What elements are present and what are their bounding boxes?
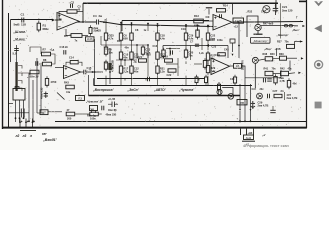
wire drop bottom [244, 78, 246, 121]
wire drop bottom [239, 84, 241, 121]
main signal wire [100, 22, 214, 27]
wire [185, 61, 187, 64]
capacitor C15 [83, 70, 85, 75]
svg-text:„Лин’: „Лин’ [263, 47, 272, 51]
top supply bus [83, 2, 278, 4]
wire fb U2 [66, 62, 70, 65]
svg-text:„г’: „г’ [261, 133, 266, 137]
wire drop [207, 26, 209, 31]
resistor C25 [287, 44, 295, 48]
resistor R43 [66, 85, 75, 89]
resistor R13a [130, 33, 133, 40]
switch S1 tap 4 [18, 88, 22, 91]
junction [250, 120, 252, 122]
junction [32, 120, 34, 122]
capacitor C1 [21, 18, 23, 23]
output arrow 2 [300, 40, 303, 42]
wire grid h3 [166, 48, 180, 50]
svg-text:200: 200 [67, 117, 72, 121]
svg-text:2м: 2м [99, 14, 103, 18]
wire input down to switch [10, 20, 12, 63]
svg-text:R30: R30 [210, 38, 215, 42]
band stub [124, 78, 126, 80]
svg-text:АН2: АН2 [246, 136, 252, 140]
svg-text:„Монитор’: „Монитор’ [252, 39, 268, 43]
resistor R20 [156, 66, 159, 73]
ground stem U3 [208, 8, 210, 15]
svg-text:„Ш.мог.’: „Ш.мог.’ [13, 30, 27, 34]
wire U1 output [77, 21, 96, 23]
capacitor C23b [147, 77, 149, 81]
junction [244, 120, 246, 122]
svg-text:С43: С43 [224, 49, 229, 52]
capacitor C19 [14, 48, 19, 50]
capacitor C28b [267, 78, 272, 80]
svg-text:+НЗ: +НЗ [248, 132, 253, 135]
svg-text:R8: R8 [43, 58, 47, 62]
wire band corner2 [88, 75, 90, 96]
wire grid v2 [147, 45, 149, 58]
resistor R14 feedback [70, 61, 78, 64]
resistor R22 [184, 33, 187, 40]
feedback arrow left [206, 44, 209, 47]
svg-text:С8: С8 [135, 28, 139, 32]
wire [120, 76, 122, 85]
capacitor C35 [101, 106, 103, 111]
resistor R28 [206, 66, 209, 73]
wire [75, 113, 90, 115]
resistor R19b [165, 59, 173, 62]
svg-text:л3: л3 [22, 134, 27, 138]
wire lamp to band [222, 88, 233, 96]
output arrow right [302, 25, 305, 27]
svg-text:2мк×476: 2мк×476 [242, 60, 245, 70]
svg-text:С19: С19 [181, 28, 186, 31]
resistor R11 [119, 52, 122, 59]
wire gnd bus left [8, 112, 29, 114]
selector switch S1 bar [15, 62, 17, 91]
op-amp U4 [211, 58, 230, 75]
wire drop [185, 25, 187, 31]
wire U3 out [233, 21, 253, 23]
wire grid h1 [101, 44, 148, 46]
pin mark 3 [33, 120, 35, 122]
ground bar U3 [206, 7, 212, 9]
wire [162, 46, 164, 51]
wire [131, 61, 133, 64]
junction pin 3 [32, 121, 34, 123]
junction pin [23, 117, 25, 119]
motor M1 circle [252, 57, 258, 63]
connector bracket line [20, 130, 36, 132]
resistor R6 [104, 33, 107, 40]
svg-text:АЧХ: АЧХ [87, 37, 93, 41]
wire [105, 61, 107, 64]
page left edge line [2, 0, 4, 129]
wire R3 to fb [77, 11, 83, 13]
capacitor C16 [63, 50, 65, 54]
capacitor C13b [170, 50, 172, 54]
wire long vertical d [40, 65, 42, 113]
svg-text:70к: 70к [188, 53, 193, 57]
svg-text:4,7Б: 4,7Б [280, 80, 285, 83]
junction bus C21 [275, 2, 277, 4]
junction [124, 59, 126, 61]
wire [296, 41, 303, 43]
junction main 1 [103, 21, 105, 23]
junction [92, 71, 94, 73]
wire [284, 92, 286, 100]
wire U1 to R5 [66, 29, 71, 36]
wire [280, 70, 282, 78]
wire [120, 61, 122, 64]
svg-text:„Воспроизв’: „Воспроизв’ [92, 88, 114, 92]
wire tone c [39, 63, 42, 65]
resistor R34 [218, 84, 221, 89]
resistor R45 [287, 81, 290, 88]
connector XS1 box [244, 135, 254, 140]
ui icon square [315, 102, 322, 109]
svg-text:С22: С22 [167, 73, 172, 77]
svg-text:С31: С31 [252, 88, 257, 91]
frame right border [306, 0, 308, 128]
svg-text:„ЗпСн’: „ЗпСн’ [127, 88, 139, 92]
svg-text:С?: С? [190, 41, 194, 44]
junction [185, 24, 187, 26]
ground bar V2 [254, 33, 263, 35]
wire [157, 42, 159, 50]
wire U3out to U4 fb [238, 22, 240, 58]
capacitor C2 [70, 4, 72, 8]
junction U1 out [82, 21, 84, 23]
switch S1 tap 1 [18, 66, 22, 69]
svg-text:2мк 4,7В: 2мк 4,7В [287, 96, 298, 100]
boxed label LZ right [237, 100, 247, 105]
svg-text:R37: R37 [277, 41, 282, 44]
feedthrough marks [284, 25, 288, 27]
resistor R16 [141, 47, 144, 54]
resistor R40 [45, 79, 48, 86]
resistor R20b [168, 69, 176, 72]
svg-text:2п: 2п [281, 89, 284, 93]
svg-text:R42: R42 [280, 67, 285, 70]
wire [157, 76, 159, 85]
wire pin a [15, 118, 17, 122]
svg-text:40п: 40п [125, 47, 130, 50]
wire long vertical b [32, 80, 34, 121]
op-amp U3 [213, 15, 232, 31]
second bus [122, 20, 209, 22]
wire U2 in [55, 67, 64, 69]
wire bus right drop [280, 3, 282, 38]
junction U3 out [237, 21, 239, 23]
wire [185, 76, 187, 85]
lamp HL1 [217, 89, 222, 94]
svg-text:40п: 40п [134, 69, 139, 73]
resistor R19 [156, 52, 159, 59]
ui icon arrow down [314, 1, 323, 6]
capacitor C13a [35, 61, 37, 66]
wire drop [147, 24, 149, 31]
svg-text:2,2к: 2,2к [123, 69, 129, 73]
svg-text:„АВТО’: „АВТО’ [153, 88, 166, 92]
svg-text:5мВ: 5мВ [14, 23, 21, 27]
capacitor C21 [273, 7, 278, 9]
svg-text:+С,/45: +С,/45 [108, 98, 116, 101]
switch S1 tap 3 [18, 81, 22, 84]
wire [207, 61, 209, 64]
trimmer RP1 [108, 63, 111, 70]
wire [276, 49, 278, 57]
resistor R1 [37, 23, 40, 30]
wire head pin [23, 100, 25, 118]
wire [287, 57, 298, 59]
wire [289, 72, 296, 75]
frame bottom heavy rule [2, 127, 307, 129]
resistor R5 [71, 34, 82, 38]
wire [227, 46, 229, 59]
wire U2 out [81, 71, 84, 73]
connector pin 3 [32, 119, 34, 128]
svg-text:R16: R16 [117, 40, 122, 43]
resistor R33 [195, 77, 198, 83]
capacitor C5 polarized [45, 92, 47, 99]
wire drop [157, 24, 159, 31]
resistor R12 [119, 66, 122, 73]
ui icon radio circle [315, 61, 323, 69]
svg-text:С48: С48 [89, 108, 94, 112]
svg-text:680к: 680к [43, 27, 50, 31]
wire [37, 112, 44, 114]
wire U4 out right [242, 66, 282, 78]
wire [105, 42, 107, 50]
svg-text:R38: R38 [263, 53, 268, 56]
wire [100, 36, 102, 45]
wire grid v3 [177, 58, 179, 76]
resistor R36 [233, 77, 236, 83]
resistor R25 [206, 33, 209, 40]
svg-text:+г: +г [89, 69, 91, 72]
junction pin 1 [19, 121, 21, 123]
resistor R41 [265, 71, 273, 75]
wire long vertical a [28, 73, 30, 121]
svg-text:R19: R19 [163, 55, 168, 59]
svg-text:112В: 112В [235, 19, 242, 23]
svg-text:R41: R41 [264, 67, 269, 70]
capacitor C34 [270, 109, 275, 111]
svg-text:40к: 40к [123, 55, 128, 59]
wire grid v1 [136, 45, 138, 58]
wire tone a [30, 47, 41, 54]
junction input-R1 [38, 19, 40, 21]
wire grid h2 [116, 59, 137, 61]
wire V2 collector loop [247, 16, 258, 24]
resistor R18 [156, 33, 159, 40]
resistor R15a [130, 66, 133, 73]
boxed label Monitor [251, 37, 271, 43]
svg-text:R13: R13 [194, 14, 199, 18]
svg-text:20с: 20с [260, 88, 265, 91]
resistor R10 [119, 33, 122, 40]
resistor R3 [67, 10, 77, 13]
wire band corner [93, 78, 95, 85]
resistor R46 [274, 94, 282, 97]
wire [207, 76, 209, 85]
svg-text:2мк 4,7В: 2мк 4,7В [258, 104, 269, 108]
svg-text:л: л [29, 134, 32, 138]
wire [194, 63, 202, 65]
inner bottom bus [55, 121, 307, 123]
wire long vertical c [36, 58, 38, 113]
svg-text:600: 600 [123, 36, 128, 40]
resistor R13 680k [194, 19, 204, 23]
svg-text:40мк×15Б: 40мк×15Б [41, 87, 44, 99]
junction [109, 71, 111, 73]
svg-text:С16: С16 [153, 45, 158, 48]
switch blade wire [57, 93, 65, 100]
arrow down [232, 54, 234, 56]
wire tone b [51, 54, 55, 64]
wire V2 emitter [257, 31, 259, 34]
svg-text:100к: 100к [90, 117, 96, 121]
wire [273, 73, 281, 75]
svg-text:+1д: +1д [50, 48, 55, 52]
resistor R21b [139, 59, 147, 62]
svg-text:„Чувств’ ЗГ: „Чувств’ ЗГ [85, 100, 103, 104]
junction pin [19, 117, 21, 119]
wire R3 to input [59, 12, 67, 20]
resistor R24 [196, 30, 199, 37]
svg-text:R39: R39 [279, 53, 284, 56]
svg-text:R21: R21 [138, 56, 143, 59]
wire fb U2 b [78, 62, 82, 66]
svg-text:R43: R43 [64, 81, 69, 85]
wire col 148 down [147, 45, 149, 77]
wire drop [120, 23, 122, 31]
record head BG1 box [13, 89, 25, 101]
wire grid v5 [201, 38, 203, 50]
band top line [94, 85, 253, 87]
wire R13 to U3 [203, 20, 213, 22]
wire tap to bus [22, 73, 30, 75]
junction [169, 48, 171, 50]
wire [131, 76, 133, 85]
resistor R7 [104, 47, 107, 54]
wire [157, 61, 159, 64]
svg-text:+15В: +15В [275, 48, 281, 51]
resistor R38 [265, 57, 273, 61]
wire drop [105, 22, 107, 31]
junction pin 2 [25, 121, 27, 123]
wire long vertical e [94, 39, 96, 85]
junction [131, 22, 133, 24]
generator G1 circle [257, 93, 263, 99]
svg-text:„Вход1’: „Вход1’ [42, 138, 58, 142]
connector pin 1 [19, 119, 21, 128]
wire U4 feedback [163, 45, 228, 47]
svg-text:С14: С14 [69, 56, 74, 60]
capacitor C4 [96, 20, 98, 25]
band stub [198, 78, 200, 80]
resistor R7t [42, 52, 51, 56]
svg-text:100к: 100к [217, 38, 223, 42]
wire [98, 113, 102, 115]
capacitor C28a [262, 78, 264, 83]
wire [48, 111, 62, 113]
band upper bus [97, 78, 205, 80]
wire head pin [19, 100, 21, 118]
wire U4 out [230, 65, 234, 67]
wire bus drop C21 [275, 0, 277, 13]
wire [294, 25, 298, 27]
resistor R14u [217, 9, 226, 12]
op-amp U2 [64, 66, 81, 79]
wire connector drop [253, 129, 255, 135]
junction [105, 21, 107, 23]
svg-text:R7: R7 [43, 48, 47, 52]
svg-text:4700: 4700 [51, 80, 57, 84]
resistor R35 [205, 77, 208, 83]
svg-text:С23: С23 [212, 46, 217, 49]
junction band [232, 95, 234, 97]
junction [207, 25, 209, 27]
wire [207, 42, 209, 50]
svg-text:л2: л2 [15, 134, 20, 138]
second bus left drop [121, 21, 123, 32]
junction [147, 44, 149, 46]
junction [157, 23, 159, 25]
wire head pin [15, 100, 17, 118]
resistor R14a [130, 52, 133, 59]
capacitor C33 [267, 94, 269, 98]
wire drop [131, 23, 133, 31]
wire [295, 42, 296, 45]
svg-text:R40: R40 [270, 53, 275, 56]
svg-text:470мк15В: 470мк15В [112, 60, 115, 72]
top right corner segment [299, 0, 307, 2]
svg-text:2д: 2д [134, 61, 137, 64]
trimmer R6x [90, 106, 98, 111]
svg-text:+25: +25 [97, 29, 102, 33]
wire grid v4 [190, 46, 192, 61]
capacitor C12u [219, 14, 221, 18]
svg-text:К5Г: К5Г [42, 132, 47, 136]
junction [28, 120, 30, 122]
capacitor C24 box [218, 53, 226, 56]
wire [131, 42, 133, 50]
junction [239, 120, 241, 122]
wire [258, 59, 265, 60]
wire grid h4 [166, 63, 178, 65]
wire right vertical [289, 61, 291, 72]
resistor R39 [280, 56, 287, 60]
resistor R47 [66, 112, 75, 116]
junction [136, 44, 138, 46]
transistor V2 circle [255, 24, 261, 30]
junction [120, 22, 122, 24]
junction [239, 121, 241, 123]
svg-text:„100м 1д’: „100м 1д’ [26, 75, 39, 79]
svg-text:C5: C5 [111, 34, 115, 38]
svg-text:40мк 15В: 40мк 15В [106, 114, 117, 117]
junction pin [15, 117, 17, 119]
pin mark 1 [21, 120, 23, 122]
scan paper tint over schematic area [3, 0, 307, 129]
wire [105, 76, 107, 85]
input arrow [52, 19, 55, 22]
svg-text:„М.мог.’: „М.мог.’ [13, 38, 27, 42]
wire long vertical f [109, 48, 111, 84]
